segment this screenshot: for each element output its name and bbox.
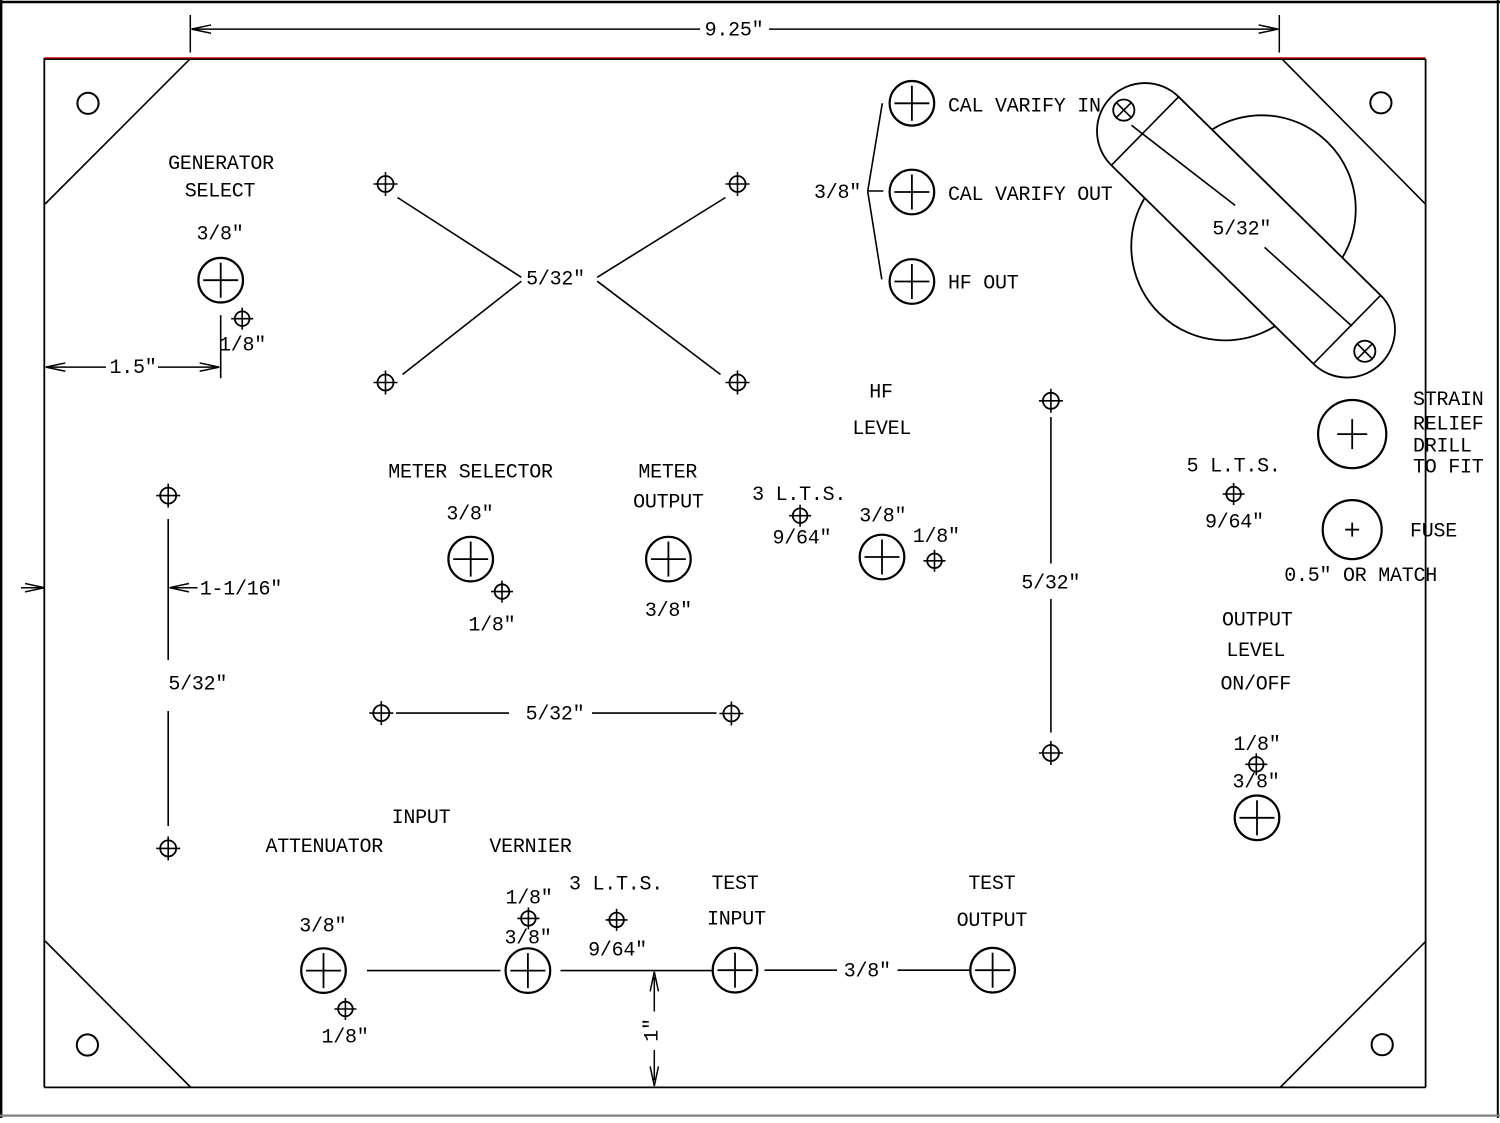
svg-text:3/8": 3/8" — [844, 961, 891, 984]
svg-text:OUTPUT: OUTPUT — [1222, 610, 1293, 633]
svg-text:9/64": 9/64" — [588, 940, 647, 963]
svg-text:LEVEL: LEVEL — [852, 418, 911, 441]
svg-text:METER: METER — [638, 462, 697, 485]
svg-text:5/32": 5/32" — [1021, 573, 1080, 596]
svg-text:5/32": 5/32" — [526, 269, 585, 292]
svg-text:5/32": 5/32" — [526, 704, 585, 727]
svg-text:1/8": 1/8" — [321, 1027, 368, 1050]
svg-text:3/8": 3/8" — [1232, 772, 1279, 795]
svg-text:SELECT: SELECT — [185, 181, 256, 204]
svg-text:TO FIT: TO FIT — [1413, 457, 1484, 480]
svg-text:3/8": 3/8" — [859, 506, 906, 529]
svg-text:1/8": 1/8" — [913, 526, 960, 549]
svg-text:ON/OFF: ON/OFF — [1220, 674, 1291, 697]
svg-text:TEST: TEST — [711, 873, 758, 896]
svg-text:INPUT: INPUT — [707, 909, 766, 932]
svg-text:CAL VARIFY OUT: CAL VARIFY OUT — [948, 184, 1113, 207]
svg-text:3/8": 3/8" — [814, 182, 861, 205]
svg-text:1-1/16": 1-1/16" — [200, 579, 282, 602]
svg-text:METER SELECTOR: METER SELECTOR — [388, 462, 553, 485]
svg-text:3/8": 3/8" — [446, 504, 493, 527]
svg-text:HF OUT: HF OUT — [948, 273, 1019, 296]
svg-text:LEVEL: LEVEL — [1226, 640, 1285, 663]
svg-text:5/32": 5/32" — [1212, 219, 1271, 242]
svg-text:DRILL: DRILL — [1413, 436, 1472, 459]
svg-text:9.25": 9.25" — [705, 20, 764, 43]
svg-text:3 L.T.S.: 3 L.T.S. — [569, 874, 663, 897]
svg-text:1/8": 1/8" — [219, 335, 266, 358]
svg-text:STRAIN: STRAIN — [1413, 389, 1484, 412]
svg-text:1/8": 1/8" — [468, 615, 515, 638]
svg-text:OUTPUT: OUTPUT — [633, 492, 704, 515]
svg-text:INPUT: INPUT — [392, 807, 451, 830]
svg-text:FUSE: FUSE — [1410, 521, 1457, 544]
svg-text:RELIEF: RELIEF — [1413, 414, 1484, 437]
svg-text:HF: HF — [869, 382, 893, 405]
svg-text:9/64": 9/64" — [1205, 512, 1264, 535]
svg-text:3 L.T.S.: 3 L.T.S. — [752, 484, 846, 507]
svg-text:GENERATOR: GENERATOR — [168, 153, 274, 176]
svg-text:5/32": 5/32" — [168, 674, 227, 697]
svg-text:0.5" OR MATCH: 0.5" OR MATCH — [1284, 565, 1437, 588]
svg-text:TEST: TEST — [968, 873, 1015, 896]
svg-text:3/8": 3/8" — [299, 916, 346, 939]
svg-text:5 L.T.S.: 5 L.T.S. — [1187, 456, 1281, 479]
svg-text:1": 1" — [642, 1018, 665, 1042]
svg-text:1/8": 1/8" — [505, 888, 552, 911]
svg-text:1/8": 1/8" — [1233, 734, 1280, 757]
svg-text:ATTENUATOR: ATTENUATOR — [266, 836, 384, 859]
svg-text:VERNIER: VERNIER — [489, 836, 572, 859]
svg-text:OUTPUT: OUTPUT — [957, 910, 1028, 933]
svg-text:9/64": 9/64" — [773, 528, 832, 551]
svg-text:3/8": 3/8" — [504, 928, 551, 951]
svg-text:CAL VARIFY IN: CAL VARIFY IN — [948, 96, 1101, 119]
svg-text:3/8": 3/8" — [196, 224, 243, 247]
svg-text:1.5": 1.5" — [109, 357, 156, 380]
svg-text:3/8": 3/8" — [645, 600, 692, 623]
